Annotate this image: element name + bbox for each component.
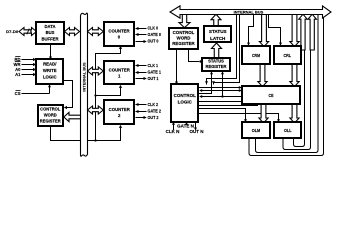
bus arrow internal bus to counter 2 <box>88 106 104 114</box>
status register <box>202 58 230 71</box>
bus arrow CRM to CE <box>258 64 267 87</box>
wire OUT 0 <box>136 40 147 43</box>
wire control logic to OLL <box>199 114 281 123</box>
svg-text:CONTROL: CONTROL <box>174 93 196 98</box>
svg-text:LOGIC: LOGIC <box>43 74 57 79</box>
internal bus (right diagram) <box>170 6 331 18</box>
wire OUT 1 <box>136 77 147 80</box>
bus arrow OLL to internal bus B <box>308 14 316 50</box>
wire A1 input <box>22 73 37 76</box>
wire control word register to control logic <box>175 49 178 85</box>
svg-text:GATE N: GATE N <box>177 123 194 128</box>
wire OLL to bus arrow A <box>294 20 305 147</box>
svg-text:OLM: OLM <box>252 128 261 133</box>
junction status register feed <box>221 95 223 97</box>
bus arrow internal bus to control word register <box>64 112 81 121</box>
label A1 <box>15 72 21 77</box>
svg-text:LATCH: LATCH <box>210 36 226 41</box>
label WR <box>14 62 21 68</box>
wire GATE 2 <box>135 110 146 113</box>
svg-text:CLK 2: CLK 2 <box>148 102 159 107</box>
wire OUT 2 <box>136 116 147 119</box>
wire data-bus-buffer to read/write logic <box>49 44 52 60</box>
junction at trunk <box>94 139 96 141</box>
status latch <box>204 26 231 42</box>
wire control logic to OLM <box>199 109 248 123</box>
data bus buffer <box>36 22 64 44</box>
svg-text:DATA: DATA <box>44 24 55 29</box>
svg-text:CLK N: CLK N <box>166 129 180 134</box>
wire RD input <box>22 58 37 61</box>
bus arrow internal bus to CRL <box>290 14 299 47</box>
svg-text:INTERNAL BUS: INTERNAL BUS <box>234 9 264 14</box>
bus arrow D7-D0 to data bus buffer <box>19 28 37 36</box>
wire GATE 0 <box>135 33 146 36</box>
label CLK N <box>166 129 180 134</box>
svg-text:COUNTER: COUNTER <box>109 107 131 112</box>
svg-text:COUNTER: COUNTER <box>109 67 131 72</box>
bus arrow CE to OLL <box>290 104 299 124</box>
bus arrow status register to status latch <box>212 43 222 58</box>
label OUT 1 <box>148 76 160 81</box>
bus arrow internal bus to CRM <box>259 14 268 47</box>
bus arrow internal bus to counter 0 <box>88 28 104 36</box>
wire counting element to control logic row 2 <box>199 89 242 92</box>
output latch OLM <box>242 122 270 138</box>
svg-text:INTERNAL BUS: INTERNAL BUS <box>82 62 86 92</box>
wire read/write logic to control word register <box>64 81 73 110</box>
bus arrow CE to OLM <box>259 104 268 124</box>
svg-text:LOGIC: LOGIC <box>178 99 193 104</box>
wire branch to counter 0 <box>96 46 123 141</box>
counter 2 <box>104 100 134 124</box>
wire control logic to counting element row 1 <box>199 86 242 89</box>
label CLK 2 <box>148 102 159 107</box>
label A0 <box>15 67 21 72</box>
svg-text:OUT N: OUT N <box>190 129 204 134</box>
junction branch counter 1 <box>94 94 96 96</box>
counter 0 <box>104 22 134 46</box>
wire CLK 2 <box>135 103 146 106</box>
svg-text:D7-D0: D7-D0 <box>6 29 19 34</box>
svg-text:WRITE: WRITE <box>43 68 57 73</box>
internal bus bar (left diagram) <box>81 13 88 156</box>
svg-text:BUFFER: BUFFER <box>42 37 59 42</box>
svg-text:GATE 2: GATE 2 <box>148 109 162 114</box>
wire internal bus tap to CRM <box>247 15 254 46</box>
svg-text:STATUS: STATUS <box>209 29 227 34</box>
bus arrow internal bus to counter 1 <box>88 67 104 75</box>
label GATE 2 <box>148 109 162 114</box>
svg-text:COUNTER: COUNTER <box>108 28 130 33</box>
wire control logic to status register feed A <box>199 71 214 93</box>
svg-text:CONTROL: CONTROL <box>40 106 61 111</box>
label RD <box>14 57 20 63</box>
bus arrow status latch to internal bus <box>211 14 221 27</box>
wire control word register to counters trunk <box>51 125 123 141</box>
label CLK 0 <box>148 26 159 31</box>
wire GATE N input <box>185 122 188 125</box>
wire CLK 0 <box>135 27 146 30</box>
wire counting element to control logic row 3 <box>199 95 241 98</box>
svg-text:OUT 1: OUT 1 <box>148 76 160 81</box>
counting element CE <box>242 86 300 104</box>
bus arrow OLL to internal bus A <box>299 14 307 50</box>
label GATE N <box>177 123 194 128</box>
wire internal bus to control logic B <box>212 15 240 85</box>
svg-text:REGISTER: REGISTER <box>206 64 227 69</box>
wire status register feed B <box>221 71 224 96</box>
register CRM <box>242 46 270 64</box>
control logic <box>171 84 198 122</box>
wire control word register to status register <box>189 50 203 64</box>
register CRL <box>274 46 301 64</box>
svg-text:BUS: BUS <box>46 30 55 35</box>
svg-text:REGISTER: REGISTER <box>172 41 195 46</box>
wire CS input <box>22 84 52 93</box>
wire CLK N input <box>172 122 175 130</box>
wire OUT N output <box>194 122 197 131</box>
label OUT 2 <box>148 115 160 120</box>
output latch OLL <box>274 122 301 138</box>
svg-text:CRM: CRM <box>252 53 260 58</box>
svg-text:8: 8 <box>30 30 32 34</box>
label GATE 1 <box>148 70 162 75</box>
label CS <box>15 91 21 97</box>
wire OLL to bus arrow B <box>283 20 311 150</box>
wire internal bus to control logic A <box>205 15 237 85</box>
label D7-D0 <box>6 29 19 34</box>
label OUT N <box>190 129 204 134</box>
svg-text:CE: CE <box>269 93 274 98</box>
svg-text:CS: CS <box>15 91 21 96</box>
svg-text:CRL: CRL <box>284 53 292 58</box>
bus arrow CRL to CE <box>290 64 299 87</box>
bus arrow internal bus to control word register (right) <box>179 14 190 28</box>
svg-text:OLL: OLL <box>284 128 292 133</box>
svg-text:REGISTER: REGISTER <box>40 118 61 123</box>
bus arrow data bus buffer to internal bus <box>65 28 80 36</box>
svg-text:OUT 2: OUT 2 <box>148 115 160 120</box>
svg-text:WORD: WORD <box>177 35 191 40</box>
svg-text:GATE 0: GATE 0 <box>148 32 162 37</box>
svg-text:OUT 0: OUT 0 <box>148 39 160 44</box>
wire OLM to internal bus second <box>256 14 319 153</box>
counter 1 <box>104 61 134 84</box>
svg-text:GATE 1: GATE 1 <box>148 70 162 75</box>
wire WR input <box>22 63 37 66</box>
control word register (right diagram) <box>169 28 198 49</box>
svg-text:CONTROL: CONTROL <box>173 30 195 35</box>
control word register (left diagram) <box>38 105 63 126</box>
label OUT 0 <box>148 39 160 44</box>
svg-text:A1: A1 <box>15 72 21 77</box>
svg-text:READ/: READ/ <box>43 62 57 67</box>
label GATE 0 <box>148 32 162 37</box>
label CLK 1 <box>148 63 159 68</box>
svg-text:CLK 0: CLK 0 <box>148 26 159 31</box>
wire A0 input <box>22 68 37 71</box>
wire internal bus tap to CRL <box>269 15 283 46</box>
svg-text:WORD: WORD <box>44 112 57 117</box>
wire GATE 1 <box>135 71 146 74</box>
wire control logic to counting element row 4 <box>199 101 242 103</box>
wire CLK 1 <box>135 64 146 67</box>
wire OLM to internal bus outer <box>249 14 324 156</box>
wire control logic row below counting element <box>199 105 259 107</box>
read/write logic <box>36 59 63 84</box>
wire branch to counter 1 <box>96 85 123 96</box>
svg-text:CLK 1: CLK 1 <box>148 63 159 68</box>
